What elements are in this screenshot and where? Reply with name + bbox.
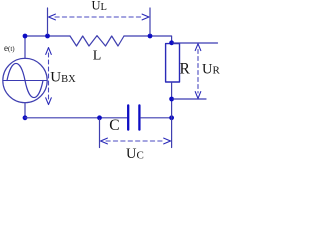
svg-text:L: L [93,48,102,63]
node dot: UR bottom tick junction [169,97,174,102]
node dot: bottom-right junction [169,115,174,120]
svg-text:e(t): e(t) [4,43,15,53]
node dot: bottom-left corner [23,115,28,120]
resistor R box [166,44,180,82]
UC left tick (below bottom wire) [99,119,101,148]
svg-text:UBX: UBX [50,70,76,86]
wire: left vertical from top node down to source top [24,36,26,58]
wire: resistor bottom to bottom-right junction [171,82,173,118]
capacitor C plate right [138,105,140,129]
wire: top horizontal right segment with corner down to resistor [124,36,172,44]
source horizontal diameter line [3,80,47,82]
wire: source bottom to bottom-left corner [24,103,26,118]
svg-text:R: R [180,60,191,77]
node dot: UL left tick junction [45,34,50,39]
UR top tick [173,42,218,44]
svg-text:UC: UC [126,146,144,162]
node dot: UL right tick junction [148,34,153,39]
UC right tick (wire extension below bottom-right junction) [171,119,173,148]
measurement arrow UBX (dashed, double-headed) [48,53,50,99]
node dot: UC left tick junction [97,115,102,120]
inductor L (zigzag) [70,36,124,46]
measurement arrow UL (dashed, double-headed) [55,16,142,18]
capacitor C plate left [127,105,129,129]
UR bottom tick [173,98,206,100]
UL right tick [149,8,151,34]
svg-text:C: C [109,117,119,134]
wire: top horizontal left segment [25,35,70,37]
measurement arrow UR (dashed, double-headed) [197,50,199,94]
svg-text:UL: UL [92,0,107,13]
svg-text:UR: UR [202,61,220,77]
wire: bottom horizontal left of capacitor [25,117,127,119]
source sine wave [7,63,43,97]
node dot: top-left corner [23,34,28,39]
UL left tick [47,8,49,34]
wire: bottom horizontal right of capacitor [141,117,172,119]
measurement arrow UC (dashed, double-headed) [106,140,164,142]
source e(t) circle [3,58,47,102]
node dot: resistor top / UR top tick junction [169,40,174,45]
